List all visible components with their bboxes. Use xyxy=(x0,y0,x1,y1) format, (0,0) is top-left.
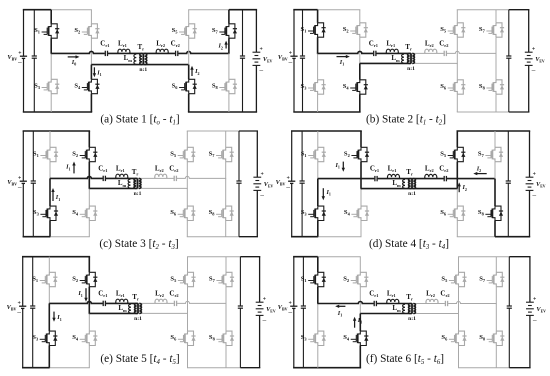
wire upper tank left segment with crossover xyxy=(318,302,412,304)
svg-text:n:1: n:1 xyxy=(134,191,142,197)
wire leg S4 source xyxy=(359,94,361,112)
capacitor dc-link right xyxy=(506,56,511,58)
wire leg S4 drain xyxy=(88,313,90,331)
wire leg S5 drain xyxy=(186,131,188,147)
svg-text:n:1: n:1 xyxy=(139,67,147,73)
wire right battery rail xyxy=(529,257,531,303)
transistor S6 xyxy=(179,79,197,93)
wire leg S5 drain xyxy=(187,257,189,273)
transistor S4 xyxy=(80,331,98,345)
transistor S2 xyxy=(80,147,98,161)
inductor Lr2 xyxy=(156,49,168,53)
wire lower tank left segment xyxy=(91,64,143,66)
wire leg S5 drain xyxy=(456,131,458,147)
wire leg S5 source to node xyxy=(187,287,189,314)
wire bottom rail right battery loop xyxy=(239,236,258,238)
transistor S3 xyxy=(40,331,58,345)
transistor S2 xyxy=(80,272,98,286)
transformer Tr xyxy=(409,304,411,314)
capacitor dc-link left xyxy=(300,56,305,58)
wire leg S2 source to node xyxy=(359,287,361,315)
capacitor dc-link left xyxy=(32,56,37,58)
svg-text:−: − xyxy=(288,58,293,67)
transistor S3 xyxy=(308,80,326,94)
wire left dc-link cap rail xyxy=(302,257,304,306)
wire top rail left (idle segment) xyxy=(318,256,361,258)
capacitor Cr1 xyxy=(105,50,108,57)
wire leg S1 drain xyxy=(50,10,52,24)
wire leg S4 source xyxy=(88,346,90,368)
svg-text:+: + xyxy=(260,46,263,52)
wire left battery rail xyxy=(293,10,295,57)
transistor S2 xyxy=(82,24,100,38)
wire leg S5 source to node xyxy=(188,38,190,65)
wire leg S3 source xyxy=(50,94,52,112)
wire leg S8 source xyxy=(225,221,227,237)
inductor Lr1 xyxy=(386,49,398,53)
wire right dc-link cap rail xyxy=(239,257,241,306)
svg-text:+: + xyxy=(18,176,21,182)
wire upper tank right segment with crossover xyxy=(143,51,229,53)
wire leg S7 drain xyxy=(494,131,496,147)
current arrow I1 xyxy=(53,312,55,319)
wire left battery rail xyxy=(293,257,295,307)
capacitor dc-link left xyxy=(301,306,306,308)
inductor Lr2 xyxy=(425,174,437,178)
wire upper tank left segment with crossover xyxy=(49,301,138,303)
wire bottom rail right battery loop xyxy=(509,367,530,369)
current arrow I1 xyxy=(354,320,356,328)
wire leg S4 source xyxy=(359,346,361,368)
wire leg S7 source to node xyxy=(228,38,230,54)
capacitor Cr2 xyxy=(175,50,178,57)
wire top rail right active xyxy=(229,9,257,11)
svg-text:−: − xyxy=(286,183,291,192)
wire right dc-link cap rail xyxy=(507,131,509,181)
wire leg S2 drain xyxy=(88,131,90,147)
transistor S5 xyxy=(179,24,197,38)
wire bottom rail left xyxy=(293,367,361,369)
svg-text:+: + xyxy=(533,171,536,177)
wire right dc-link cap rail xyxy=(508,10,510,56)
transistor S7 xyxy=(219,24,237,38)
transformer Tr xyxy=(135,303,137,313)
capacitor Cr1 xyxy=(374,300,377,307)
capacitor dc-link left xyxy=(30,306,35,308)
wire upper tank left segment with crossover xyxy=(50,176,138,178)
wire leg S5 drain xyxy=(188,10,190,24)
svg-text:−: − xyxy=(17,308,22,317)
inductor Lm xyxy=(402,54,404,63)
svg-text:+: + xyxy=(532,46,535,52)
current arrow I2 xyxy=(458,185,460,192)
capacitor Cr1 xyxy=(374,175,377,182)
wire top rail right idle xyxy=(188,9,229,11)
svg-text:−: − xyxy=(532,316,537,325)
current arrow I1 xyxy=(338,305,345,307)
wire leg S7 drain xyxy=(225,131,227,147)
transistor S4 xyxy=(351,331,369,345)
wire bottom rail right idle xyxy=(187,236,239,238)
wire left dc-link cap rail xyxy=(32,131,34,181)
svg-text:+: + xyxy=(263,296,266,302)
transistor S7 xyxy=(487,272,505,286)
wire bottom rail left (idle segment) xyxy=(50,236,90,238)
svg-text:+: + xyxy=(289,301,292,307)
wire top rail right idle xyxy=(458,256,509,258)
wire bottom rail right idle xyxy=(457,111,509,113)
wire right battery rail xyxy=(255,10,257,53)
wire leg S8 source xyxy=(228,94,230,112)
wire leg S1 drain xyxy=(48,257,50,273)
inductor Lr1 xyxy=(116,174,128,178)
wire lower tank left segment xyxy=(89,187,137,189)
wire leg S5 source to node xyxy=(456,162,458,190)
wire lower tank right segment xyxy=(138,312,188,314)
wire leg S2 source to node xyxy=(88,287,90,314)
battery VEV xyxy=(256,302,264,315)
svg-text:−: − xyxy=(260,191,265,200)
battery VEV xyxy=(253,52,261,65)
svg-text:n:1: n:1 xyxy=(408,316,416,322)
transistor S7 xyxy=(216,147,234,161)
wire top rail right battery loop xyxy=(240,256,260,258)
wire leg S3 drain xyxy=(317,304,319,332)
wire lower tank left segment xyxy=(361,188,412,190)
wire leg S2 drain xyxy=(90,10,92,24)
capacitor dc-link right xyxy=(240,56,245,58)
current arrow I1 xyxy=(73,165,75,174)
wire top rail left xyxy=(23,130,91,132)
transistor S8 xyxy=(486,80,504,94)
capacitor Cr2 xyxy=(174,175,177,182)
wire leg S5 drain xyxy=(456,10,458,23)
svg-text:(a) State 1 [to - t1]: (a) State 1 [to - t1] xyxy=(100,114,179,127)
svg-text:−: − xyxy=(17,183,22,192)
wire leg S2 drain xyxy=(88,257,90,273)
wire right dc-link cap rail xyxy=(508,257,510,306)
transistor S8 xyxy=(219,79,237,93)
wire leg S4 drain xyxy=(360,189,362,207)
wire upper tank right segment with crossover xyxy=(138,176,226,178)
wire leg S8 source xyxy=(495,94,497,112)
wire leg S2 source to node xyxy=(90,38,92,65)
wire upper tank left segment with crossover xyxy=(51,51,143,53)
transistor S1 xyxy=(42,24,60,38)
battery VBV xyxy=(288,181,295,183)
wire top rail left (active segment) xyxy=(293,9,317,11)
wire left dc-link cap rail xyxy=(32,257,34,306)
wire lower tank left segment xyxy=(89,312,138,314)
wire bottom rail left (active segment) xyxy=(22,367,50,369)
wire leg S6 drain xyxy=(456,63,458,79)
wire leg S3 drain xyxy=(317,53,319,79)
capacitor Cr1 xyxy=(373,50,376,57)
transformer Tr xyxy=(409,179,411,189)
wire upper tank right segment with crossover xyxy=(138,301,226,303)
wire leg S3 source xyxy=(317,221,319,237)
wire leg S8 drain xyxy=(495,53,497,79)
wire bottom rail left xyxy=(23,111,92,113)
wire lower tank left segment xyxy=(360,313,412,315)
current arrow I0 xyxy=(68,56,77,58)
transistor S7 xyxy=(486,23,504,37)
transistor S5 xyxy=(448,147,466,161)
wire top rail left (active segment) xyxy=(293,256,318,258)
wire leg S2 source to node xyxy=(359,37,361,64)
inductor Lr2 xyxy=(426,299,438,303)
transistor S6 xyxy=(178,206,196,220)
svg-text:−: − xyxy=(288,308,293,317)
wire top rail right xyxy=(457,130,531,132)
wire leg S1 source to node xyxy=(317,162,319,180)
wire leg S6 source xyxy=(456,221,458,237)
wire leg S1 drain xyxy=(49,131,51,147)
wire lower tank right segment xyxy=(143,64,188,66)
wire left battery rail xyxy=(22,257,24,307)
current arrow I1 xyxy=(342,162,344,169)
wire top rail left xyxy=(291,130,362,132)
svg-text:n:1: n:1 xyxy=(134,316,142,322)
wire leg S8 source xyxy=(495,346,497,368)
wire leg S6 source xyxy=(187,346,189,368)
battery VEV xyxy=(526,177,534,190)
wire leg S5 source to node xyxy=(186,162,188,189)
wire leg S4 drain xyxy=(359,314,361,332)
svg-text:n:1: n:1 xyxy=(407,66,415,72)
wire leg S3 source xyxy=(317,94,319,112)
current arrow I2 xyxy=(225,44,227,49)
wire leg S1 source to node xyxy=(317,287,319,305)
wire lower tank right segment xyxy=(411,62,457,64)
inductor Lr1 xyxy=(388,174,400,178)
capacitor dc-link right xyxy=(238,306,243,308)
wire top rail left (idle segment) xyxy=(51,9,92,11)
wire bottom rail left xyxy=(293,111,360,113)
inductor Lr2 xyxy=(155,174,167,178)
wire leg S4 drain xyxy=(359,63,361,79)
svg-text:+: + xyxy=(17,301,20,307)
wire leg S1 source to node xyxy=(317,37,319,54)
wire leg S6 source xyxy=(458,346,460,368)
wire leg S7 source to node xyxy=(495,287,497,305)
wire leg S7 source to node xyxy=(495,37,497,54)
svg-text:(c) State 3 [t2 - t3]: (c) State 3 [t2 - t3] xyxy=(99,238,178,251)
wire bottom rail right battery loop xyxy=(240,367,260,369)
wire bottom rail right xyxy=(188,111,257,113)
wire left dc-link cap rail xyxy=(301,131,303,181)
capacitor Cr2 xyxy=(444,50,447,57)
wire top rail right idle xyxy=(457,9,509,11)
transistor S3 xyxy=(40,206,58,220)
battery VBV xyxy=(20,56,27,58)
svg-text:+: + xyxy=(533,296,536,302)
wire right dc-link cap rail xyxy=(238,131,240,181)
current arrow I1 xyxy=(52,191,54,201)
transistor S5 xyxy=(178,272,196,286)
current arrow I2 xyxy=(191,69,193,76)
wire left battery rail xyxy=(291,131,293,181)
transistor S3 xyxy=(308,206,326,220)
wire leg S2 drain xyxy=(359,257,361,273)
wire right battery rail xyxy=(528,10,530,53)
transistor S5 xyxy=(448,23,466,37)
capacitor Cr2 xyxy=(444,175,447,182)
wire leg S5 drain xyxy=(458,257,460,273)
wire right battery rail xyxy=(259,257,261,303)
wire upper tank right segment with crossover xyxy=(411,51,496,53)
battery VBV xyxy=(290,306,297,308)
wire leg S1 source to node xyxy=(48,287,50,304)
wire leg S3 source xyxy=(49,221,51,237)
transformer Tr xyxy=(140,53,142,64)
capacitor dc-link left xyxy=(31,181,36,183)
svg-text:−: − xyxy=(262,316,267,325)
wire leg S7 drain xyxy=(495,10,497,23)
wire leg S7 source to node xyxy=(494,162,496,180)
transistor S8 xyxy=(485,206,503,220)
svg-text:−: − xyxy=(532,191,537,200)
wire lower tank right segment xyxy=(138,187,188,189)
wire leg S6 source xyxy=(188,94,190,112)
capacitor dc-link right xyxy=(506,181,511,183)
wire lower tank right segment xyxy=(412,188,457,190)
svg-text:n:1: n:1 xyxy=(408,191,416,197)
wire leg S3 drain xyxy=(50,53,52,79)
wire leg S7 source to node xyxy=(225,287,227,304)
capacitor dc-link left xyxy=(300,181,305,183)
wire leg S8 drain xyxy=(228,53,230,79)
wire right dc-link cap rail xyxy=(242,10,244,56)
battery VEV xyxy=(253,177,261,190)
svg-text:−: − xyxy=(18,58,23,67)
wire leg S7 source to node xyxy=(225,162,227,179)
wire leg S8 source xyxy=(494,221,496,237)
inductor Lr1 xyxy=(116,299,128,303)
current arrow I1 xyxy=(93,67,95,74)
inductor Lr1 xyxy=(118,49,130,53)
wire leg S3 drain xyxy=(49,178,51,206)
transistor S8 xyxy=(216,331,234,345)
wire upper tank left segment with crossover xyxy=(318,178,412,180)
wire bottom rail right battery loop xyxy=(509,111,530,113)
wire left dc-link cap rail xyxy=(302,10,304,56)
battery VEV xyxy=(526,302,534,315)
wire leg S2 source to node xyxy=(88,162,90,189)
wire right battery rail xyxy=(529,131,531,177)
wire left dc-link cap rail xyxy=(33,10,35,56)
svg-text:+: + xyxy=(286,176,289,182)
wire leg S7 drain xyxy=(495,257,497,273)
battery VBV xyxy=(20,181,27,183)
transistor S4 xyxy=(80,206,98,220)
inductor Lr1 xyxy=(387,299,399,303)
wire bottom rail left (active segment) xyxy=(291,236,318,238)
wire top rail right idle xyxy=(187,130,239,132)
transistor S5 xyxy=(449,272,467,286)
transistor S7 xyxy=(216,272,234,286)
transistor S1 xyxy=(40,272,58,286)
wire upper tank right segment with crossover xyxy=(412,178,495,180)
wire leg S1 drain xyxy=(317,10,319,23)
wire leg S2 source to node xyxy=(360,162,362,190)
current arrow I1 xyxy=(322,188,324,197)
battery VBV xyxy=(290,56,297,58)
wire leg S6 source xyxy=(186,221,188,237)
wire upper tank left segment with crossover xyxy=(318,51,411,53)
transistor S7 xyxy=(485,147,503,161)
transistor S6 xyxy=(178,331,196,345)
wire lower tank left segment xyxy=(360,62,411,64)
wire leg S5 source to node xyxy=(456,37,458,64)
wire leg S1 drain xyxy=(317,131,319,147)
wire leg S6 source xyxy=(456,94,458,112)
transistor S8 xyxy=(216,206,234,220)
transformer Tr xyxy=(408,53,410,63)
wire leg S7 drain xyxy=(225,257,227,273)
wire leg S4 drain xyxy=(90,65,92,80)
capacitor Cr1 xyxy=(103,175,106,182)
wire leg S8 source xyxy=(225,346,227,368)
svg-text:(e) State 5 [t4 - t5]: (e) State 5 [t4 - t5] xyxy=(100,353,179,366)
wire lower tank right segment xyxy=(412,313,459,315)
svg-text:+: + xyxy=(18,51,21,57)
wire leg S1 source to node xyxy=(50,38,52,54)
wire leg S1 drain xyxy=(317,257,319,273)
transistor S1 xyxy=(40,147,58,161)
wire leg S3 drain xyxy=(48,303,50,331)
wire bottom rail left (idle segment) xyxy=(49,367,90,369)
wire leg S7 drain xyxy=(228,10,230,24)
wire top rail left (active segment) xyxy=(23,9,51,11)
wire left battery rail xyxy=(23,10,25,57)
wire leg S2 drain xyxy=(359,10,361,23)
transistor S1 xyxy=(308,272,326,286)
current arrow I1 xyxy=(85,288,87,299)
wire leg S6 drain xyxy=(456,189,458,207)
wire leg S3 drain xyxy=(317,179,319,207)
wire leg S2 drain xyxy=(360,131,362,147)
wire leg S6 drain xyxy=(188,65,190,80)
capacitor Cr2 xyxy=(174,300,177,307)
current arrow I1 xyxy=(337,56,347,58)
wire leg S6 drain xyxy=(186,188,188,206)
battery VEV xyxy=(525,52,533,65)
svg-text:−: − xyxy=(259,66,264,75)
inductor Lr2 xyxy=(425,49,437,53)
wire leg S4 source xyxy=(88,221,90,237)
current arrow I2 xyxy=(476,173,486,175)
wire bottom rail left (idle segment) xyxy=(318,236,362,238)
transistor S4 xyxy=(82,79,100,93)
inductor Lm xyxy=(134,54,136,64)
wire bottom rail right idle xyxy=(457,236,495,238)
wire top rail right battery loop xyxy=(509,256,530,258)
wire bottom rail right idle xyxy=(458,367,509,369)
wire bottom rail right idle xyxy=(187,367,240,369)
svg-text:+: + xyxy=(289,51,292,57)
capacitor dc-link right xyxy=(507,306,512,308)
wire leg S3 source xyxy=(317,346,319,368)
wire top rail right battery loop xyxy=(239,130,258,132)
transistor S1 xyxy=(308,23,326,37)
svg-text:+: + xyxy=(260,171,263,177)
inductor Lr2 xyxy=(155,299,167,303)
wire leg S8 drain xyxy=(225,178,227,206)
inductor Lm xyxy=(128,179,130,188)
transistor S4 xyxy=(350,80,368,94)
inductor Lm xyxy=(403,304,405,313)
